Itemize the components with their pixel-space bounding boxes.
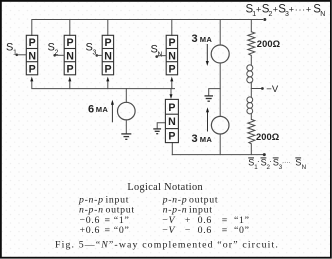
label 3MA (lower) (192, 133, 213, 145)
arrow into Q1 emitter (30, 77, 33, 82)
wire bottom bus (172, 154, 263, 156)
svg-text:P: P (168, 131, 175, 143)
svg-text:P: P (105, 64, 112, 76)
arrow into QN emitter (170, 77, 173, 82)
svg-text:−V: −V (266, 84, 279, 95)
svg-text:MA: MA (96, 105, 109, 114)
wire L1 to tap (250, 82, 252, 97)
arrow into Q2 emitter (68, 77, 71, 82)
wire 3MA column middle (219, 63, 221, 116)
wire 6MA to ground (125, 120, 127, 133)
node -V dot (261, 87, 264, 90)
wire stem Q2 emitter (69, 81, 71, 89)
wire L2 to R2 (250, 114, 252, 120)
svg-text:P: P (168, 102, 175, 114)
label S2 with input dot and wire (48, 42, 59, 57)
svg-text:P: P (29, 64, 36, 76)
transistor QN (input SN) PNP box (166, 35, 177, 75)
text logic table right column (162, 194, 250, 236)
svg-text:N: N (28, 50, 36, 62)
ground (stub between current sources) (205, 96, 214, 101)
ground (Q5 base) (153, 129, 161, 134)
wire between R1 and L1 (250, 55, 252, 65)
svg-text:3: 3 (192, 33, 198, 45)
svg-text:Fig. 5—“N”-way complemented “o: Fig. 5—“N”-way complemented “or” circuit… (55, 239, 279, 250)
node complement output dot (263, 153, 266, 156)
transistor Q1 (input S1) PNP box (26, 35, 37, 75)
wire right column bottom (250, 144, 252, 155)
current source I2 3MA (upper) circle (211, 45, 229, 63)
wire drop to Q3 (107, 20, 109, 36)
svg-text:P: P (169, 37, 176, 49)
label 3MA (upper) (192, 33, 213, 45)
svg-text:P: P (67, 37, 74, 49)
arrow for upper 3MA (down) (206, 44, 208, 62)
svg-text:P: P (67, 64, 74, 76)
node label S1.S2.S3...SN complement (bottom output) (248, 157, 306, 171)
svg-text:Logical Notation: Logical Notation (127, 182, 203, 193)
svg-text:200Ω: 200Ω (257, 39, 281, 49)
svg-text:MA: MA (200, 135, 213, 144)
current source I3 3MA (lower) circle (211, 116, 229, 134)
svg-text:6: 6 (88, 103, 94, 115)
wire Q5 base (157, 123, 165, 129)
inductor L2 (lower coil) (247, 97, 253, 114)
wire emitter bus (32, 81, 175, 89)
wire ground stub (209, 89, 221, 96)
svg-text:3: 3 (192, 133, 198, 145)
wire stem QN emitter (171, 81, 173, 89)
wire 3MA column lower (219, 134, 221, 155)
svg-text:+0.6=“0”: +0.6=“0” (80, 225, 130, 236)
wire 6MA column (125, 89, 127, 103)
svg-text:200Ω: 200Ω (256, 132, 280, 142)
svg-text:N: N (168, 116, 176, 128)
arrow for lower 3MA (up) (207, 112, 209, 132)
wire top bus (32, 20, 263, 36)
current source I1 6MA circle (118, 102, 136, 120)
svg-text:p-n-poutput: p-n-poutput (162, 194, 219, 205)
svg-text:P: P (169, 64, 176, 76)
svg-text:P: P (29, 37, 36, 49)
label S3 with input dot and wire (86, 42, 97, 57)
svg-text:N: N (104, 50, 112, 62)
label S1 with input dot and wire (6, 42, 17, 57)
transistor Q3 (input S3) PNP box (102, 35, 113, 75)
transistor Q5 (output) PNP box (165, 99, 178, 142)
inductor L1 (upper coil) (247, 65, 253, 83)
label SN with input dot and wire (151, 44, 163, 59)
label 6MA (88, 103, 108, 115)
resistor R2 200 ohm (lower) (248, 119, 255, 143)
node S1+S2+S3+...+SN output dot (263, 18, 266, 21)
wire drop to Q2 (69, 20, 71, 36)
transistor Q2 (input S2) PNP box (64, 35, 75, 75)
wire stem Q5 top (170, 89, 172, 95)
wire -V tap (251, 88, 261, 90)
svg-text:N: N (168, 50, 176, 62)
text logic table left column (78, 194, 135, 236)
arrow for 6MA (up) (111, 104, 113, 122)
svg-text:p-n-pinput: p-n-pinput (78, 194, 129, 205)
svg-text:N: N (66, 50, 74, 62)
ground below 6MA (121, 134, 131, 139)
wire right column top (250, 20, 252, 32)
wire 3MA column upper (219, 20, 221, 46)
svg-text:MA: MA (200, 35, 213, 44)
resistor R1 200 ohm (upper) (248, 32, 255, 56)
wire Q5 collector drop (171, 143, 173, 155)
wire drop to QN (171, 20, 173, 36)
svg-text:N: N (158, 52, 163, 59)
arrow into Q3 emitter (106, 77, 109, 82)
svg-text:P: P (105, 37, 112, 49)
arrow into Q5 emitter (down) (170, 94, 173, 99)
wire stem Q3 emitter (107, 81, 109, 89)
